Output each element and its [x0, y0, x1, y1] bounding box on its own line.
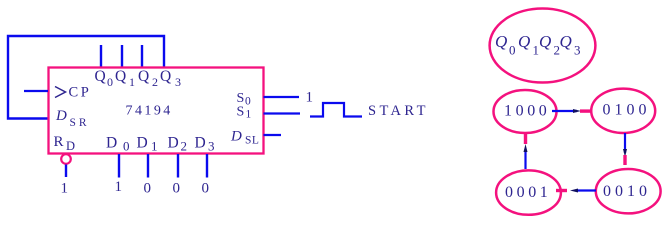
- wire: Q3 feedback loop to DSR input: [8, 36, 164, 119]
- wire: RD input stub: [65, 165, 67, 178]
- svg-text:3: 3: [175, 75, 181, 89]
- svg-text:1: 1: [306, 90, 314, 106]
- waveform: START pulse on S1: [310, 103, 362, 117]
- wire: DSL input stub: [264, 134, 282, 136]
- arrow: 0001 to 1000: [524, 134, 528, 169]
- svg-text:1: 1: [129, 75, 135, 89]
- svg-text:0: 0: [509, 43, 516, 58]
- wire: D1 input stub: [147, 154, 149, 178]
- svg-text:0: 0: [173, 181, 181, 197]
- svg-text:1: 1: [115, 179, 123, 195]
- svg-text:1000: 1000: [504, 103, 550, 120]
- wire: D3 input stub: [206, 154, 208, 178]
- svg-text:0: 0: [144, 181, 152, 197]
- svg-text:CP: CP: [69, 85, 92, 101]
- state 0001: [496, 170, 561, 214]
- arrow: 0010 to 0001: [556, 189, 596, 193]
- state 1000: [494, 90, 557, 133]
- svg-text:START: START: [368, 103, 429, 119]
- wire: Q2 output stub: [141, 45, 143, 68]
- svg-text:0100: 0100: [603, 102, 651, 119]
- pin label CP with clock chevron: [55, 87, 66, 98]
- state 0010: [596, 169, 661, 213]
- svg-text:Q: Q: [138, 68, 149, 85]
- state 0100: [591, 89, 655, 133]
- svg-text:0001: 0001: [505, 184, 551, 201]
- arrow: 1000 to 0100: [552, 109, 591, 113]
- svg-text:Q: Q: [115, 68, 126, 85]
- svg-text:Q: Q: [539, 32, 551, 51]
- svg-text:D: D: [137, 135, 148, 152]
- IC U1 74194 body: [49, 68, 264, 154]
- svg-text:D: D: [195, 135, 206, 152]
- svg-text:R: R: [54, 134, 64, 150]
- svg-text:2: 2: [152, 75, 158, 89]
- svg-text:Q: Q: [95, 68, 106, 85]
- wire: S0 input line: [264, 96, 300, 98]
- svg-text:1: 1: [151, 139, 158, 154]
- svg-text:3: 3: [574, 43, 581, 58]
- arrow: 0100 to 0010: [623, 133, 627, 165]
- svg-text:0: 0: [123, 139, 130, 154]
- svg-text:Q: Q: [160, 68, 171, 85]
- svg-text:D: D: [230, 129, 242, 145]
- wire: D0 input stub: [118, 154, 120, 178]
- svg-text:0: 0: [245, 96, 251, 108]
- svg-text:D: D: [66, 139, 75, 153]
- svg-text:Q: Q: [518, 32, 530, 51]
- svg-text:SR: SR: [70, 117, 90, 129]
- state bubble title Q0Q1Q2Q3: [490, 9, 596, 83]
- svg-text:0: 0: [202, 181, 210, 197]
- wire: Q1 output stub: [121, 45, 123, 68]
- svg-text:1: 1: [61, 181, 69, 197]
- wire: Q0 output stub: [100, 45, 102, 68]
- svg-text:2: 2: [181, 139, 188, 154]
- svg-text:74194: 74194: [126, 104, 173, 119]
- svg-text:Q: Q: [495, 32, 507, 51]
- wire: D2 input stub: [177, 154, 179, 178]
- svg-text:D: D: [168, 135, 179, 152]
- svg-text:0: 0: [107, 75, 113, 89]
- svg-text:D: D: [55, 108, 67, 124]
- svg-text:0010: 0010: [603, 183, 651, 200]
- wire: S1 input line: [264, 112, 301, 114]
- svg-text:Q: Q: [560, 32, 572, 51]
- wire: CP clock input stub: [24, 90, 48, 92]
- svg-text:3: 3: [208, 139, 215, 154]
- svg-text:1: 1: [246, 109, 252, 121]
- svg-text:S: S: [237, 105, 245, 120]
- svg-text:D: D: [106, 135, 117, 152]
- svg-text:SL: SL: [245, 135, 259, 147]
- inversion bubble on RD input: [61, 154, 71, 164]
